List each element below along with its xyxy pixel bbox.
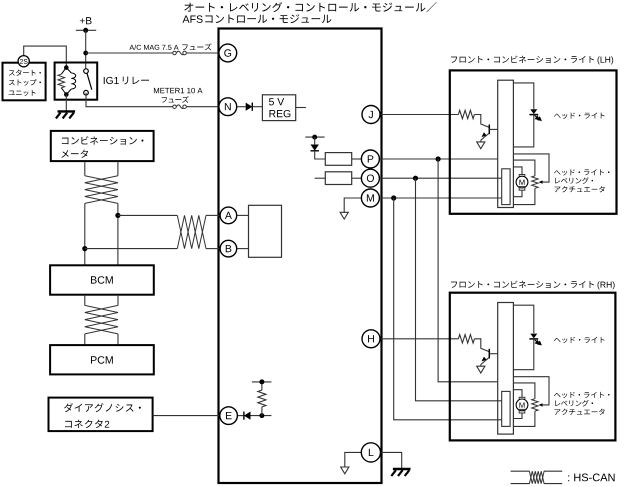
wire LED cathode LH — [513, 115, 533, 147]
wire O to LH — [380, 177, 502, 179]
terminal P — [361, 150, 379, 168]
twisted pair meter-BCM — [85, 176, 118, 204]
junction CAN-H to A — [115, 213, 120, 218]
wire R2 to O — [352, 177, 362, 179]
component: start-stop unit box — [3, 63, 46, 101]
wire +B down — [85, 30, 87, 71]
wire 2S to relay coil — [24, 46, 67, 68]
ground chassis at L — [393, 468, 411, 470]
wire pot top LH — [513, 160, 535, 176]
power tap +B bar — [76, 29, 96, 31]
component: combination meter box — [51, 131, 154, 161]
junction E node — [259, 413, 264, 418]
terminal J — [362, 106, 380, 124]
wire CAN right down — [117, 203, 119, 264]
wire motor top RH — [513, 390, 522, 398]
motor LH — [516, 176, 528, 188]
label BCM — [91, 276, 113, 284]
power tap bar above R3 — [252, 381, 272, 383]
legend HS-CAN twisted pair — [511, 470, 530, 472]
label fuse METER1 — [154, 88, 203, 93]
wire BCM-PCM right — [117, 296, 119, 306]
transistor Q RH base bar — [488, 349, 490, 359]
wire L right to chassis — [381, 452, 402, 468]
wire B to box — [237, 248, 248, 250]
ground arrow at M — [340, 212, 348, 219]
label: module title line1 — [184, 2, 436, 12]
label actuator LH — [554, 169, 609, 175]
relay switch blade — [87, 73, 92, 89]
resistor R1 (P) — [325, 153, 351, 166]
diode D2 to P line — [311, 145, 319, 151]
junction above R3 — [259, 379, 264, 384]
relay coil branches top — [61, 68, 66, 75]
wire fuse to N — [186, 106, 220, 108]
wire BCM-PCM left — [84, 296, 86, 306]
component: front combination light RH box — [450, 293, 616, 441]
wire E to diode D3 — [237, 415, 244, 417]
actuator pins block RH — [502, 391, 510, 426]
component: CAN transceiver box — [249, 205, 282, 257]
potentiometer RH — [532, 399, 538, 411]
wire pot bottom RH — [513, 411, 535, 426]
junction O branch — [413, 176, 418, 181]
wire M to ground arrow — [344, 198, 361, 212]
terminal M — [361, 189, 379, 207]
wire P to LH — [380, 158, 498, 160]
wire emitter down LH — [480, 140, 482, 142]
resistor R2 (O) — [325, 172, 351, 185]
LED RH headlight — [530, 334, 537, 339]
actuator pins block LH — [502, 169, 510, 205]
junction +B — [83, 28, 88, 33]
label IG1 relay — [104, 77, 119, 84]
motor RH brush bottom — [519, 409, 525, 413]
label start-stop unit — [9, 70, 41, 76]
junction +B branch — [83, 51, 88, 56]
ground arrow LH transistor — [477, 142, 485, 149]
terminal G — [219, 44, 237, 62]
wire diag to E — [153, 415, 220, 417]
wire P branch down to RH — [438, 159, 498, 382]
ground arrow at L — [341, 467, 349, 474]
wire bar to diode — [314, 137, 316, 144]
wire M to LH — [380, 197, 502, 199]
wire R1 to P — [352, 158, 362, 160]
connector block RH — [498, 303, 514, 435]
wire resistor to base RH — [474, 339, 489, 352]
transistor Q LH emitter arrow — [482, 132, 487, 137]
relay contact top — [84, 69, 89, 74]
component: 5V regulator box — [262, 95, 295, 121]
wire A to box — [237, 214, 248, 216]
legend HS-CAN label — [568, 474, 614, 482]
terminal E — [220, 407, 238, 425]
terminal O — [361, 169, 379, 187]
wire D2 to P resistor — [315, 151, 326, 159]
LED LH headlight — [530, 109, 537, 114]
label combination meter — [62, 136, 144, 144]
wire wiper feedback LH — [513, 154, 549, 182]
junction coil bottom — [64, 92, 69, 97]
node +B label — [80, 17, 92, 24]
wiper arrow LH — [539, 180, 543, 183]
wire wiper feedback RH — [513, 377, 549, 405]
ground chassis under relay — [58, 110, 76, 112]
label PCM — [91, 356, 113, 364]
label 5V REG — [269, 98, 284, 105]
junction above D2 — [312, 135, 317, 140]
wire to A — [118, 214, 177, 216]
motor RH — [516, 399, 528, 411]
relay IG1 box — [55, 63, 98, 100]
diode D1 at N — [246, 103, 253, 111]
transistor Q LH base bar — [488, 125, 490, 135]
wire R3 to bar — [261, 382, 263, 390]
wire motor bottom LH — [513, 190, 522, 197]
ground arrow RH transistor — [477, 366, 485, 373]
wiper arrow RH — [539, 403, 543, 406]
wire diode to REG — [252, 106, 262, 108]
transistor Q LH collector — [489, 128, 497, 130]
wire N diode — [237, 106, 246, 108]
motor LH brush bottom — [519, 187, 525, 191]
wire +B to fuse — [86, 52, 173, 54]
junction CAN-L to B — [82, 246, 87, 251]
wire pot bottom LH — [513, 188, 535, 204]
wire relay to fuse — [86, 93, 173, 107]
LED LH arrows — [535, 116, 541, 121]
label headlight RH — [554, 337, 605, 343]
transistor Q RH emitter — [481, 357, 490, 364]
fuse F1 A/C MAG 7.5A — [173, 51, 177, 55]
wire LED anode RH — [513, 305, 533, 333]
wire LED cathode RH — [513, 339, 533, 370]
component: front combination light LH box — [450, 70, 617, 213]
resistor R3 (E pullup) — [258, 390, 266, 407]
terminal A — [220, 207, 237, 224]
label diagnosis connector 2 — [64, 403, 141, 412]
relay coil branches bottom — [61, 88, 66, 95]
diode D3 at E — [244, 412, 251, 420]
junction P branch — [436, 156, 441, 161]
wire H to RH — [380, 338, 459, 340]
wire to PCM left — [84, 334, 86, 345]
twisted pair BCM-PCM — [85, 305, 118, 334]
label fuse A/C MAG — [129, 45, 178, 50]
resistor R LH headlight — [458, 110, 474, 118]
terminal H — [362, 330, 380, 348]
twisted pair A/B — [177, 215, 206, 248]
transistor Q RH emitter arrow — [482, 357, 487, 362]
wire J to LH — [380, 114, 459, 116]
wire emitter down RH — [480, 365, 482, 367]
wire node up to R3 — [261, 407, 263, 416]
power tap bar above D2 — [305, 136, 324, 138]
wire D3 to node — [251, 415, 272, 417]
label front combination light LH — [451, 56, 594, 63]
LED RH arrows — [535, 340, 541, 345]
fuse F2 METER1 10A — [173, 105, 177, 109]
wire resistor to base LH — [474, 115, 489, 128]
label front combination light RH — [451, 281, 594, 288]
wire to B — [85, 248, 178, 250]
wire LED anode LH — [513, 83, 533, 109]
wire REG stub — [296, 107, 306, 109]
motor LH brush top — [519, 175, 525, 178]
connector block LH — [498, 80, 514, 207]
junction coil top — [64, 65, 69, 70]
terminal B — [220, 240, 237, 257]
op-amp U1: auto leveling / AFS control module box — [219, 29, 382, 484]
wire L left to arrow — [345, 452, 362, 467]
transistor Q LH emitter — [481, 133, 490, 140]
wire motor bottom RH — [513, 413, 522, 419]
component: PCM box — [50, 345, 154, 374]
relay coil resistor — [58, 74, 65, 88]
label headlight LH — [554, 113, 605, 119]
wire to PCM right — [117, 334, 119, 345]
wire meter CAN-L down — [117, 162, 119, 176]
wire coil to ground — [65, 95, 67, 111]
resistor R RH headlight — [458, 335, 474, 343]
wire meter CAN-H down — [84, 162, 86, 176]
junction M branch — [391, 195, 396, 200]
potentiometer LH — [532, 176, 538, 188]
label: module title line2 — [183, 15, 203, 23]
wire fuse to G — [186, 52, 220, 54]
wire O branch down to RH — [416, 178, 502, 401]
resistor R2 (O) stub — [315, 177, 326, 179]
wire twisted to B — [206, 248, 220, 250]
motor RH brush top — [519, 397, 525, 400]
transistor Q RH collector — [489, 353, 497, 355]
connector 2S — [18, 56, 29, 67]
terminal L — [361, 443, 380, 462]
wire M branch down to RH — [394, 198, 502, 420]
wire motor top LH — [513, 167, 522, 175]
relay contact bottom — [84, 90, 89, 95]
component: diagnosis connector 2 box — [49, 398, 153, 432]
wire pot top RH — [513, 383, 535, 399]
component: BCM box — [50, 265, 154, 294]
relay coil inductor — [71, 73, 75, 89]
terminal N — [219, 98, 237, 116]
label actuator RH — [554, 392, 609, 398]
wire twisted to A — [206, 214, 220, 216]
wire CAN left down — [84, 203, 86, 264]
